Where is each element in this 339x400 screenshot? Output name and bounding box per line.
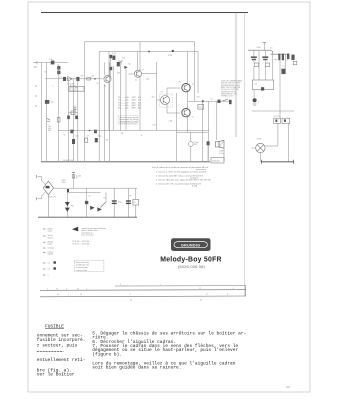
svg-text:470: 470 (153, 125, 156, 127)
bridge rectifier GR1 (43, 181, 53, 195)
svg-text:10k: 10k (91, 76, 94, 78)
svg-text:125: 125 (197, 97, 200, 99)
svg-text:5,2: 5,2 (48, 268, 51, 270)
dashed note box (118, 116, 138, 125)
arrow marker (72, 227, 78, 232)
svg-text:(5026-006 08): (5026-006 08) (178, 264, 206, 269)
resistor R16 (67, 116, 70, 120)
svg-text:cadre: cadre (48, 244, 53, 246)
svg-text:NIVEAU 50 mV: NIVEAU 50 mV (221, 95, 234, 98)
capacitor C21 variable (118, 60, 123, 66)
wire (139, 78, 141, 131)
capacitor C12 electrolytic (126, 200, 131, 201)
capacitor C6 (218, 100, 221, 103)
wire left rail (41, 63, 43, 162)
svg-text:12: 12 (199, 288, 201, 290)
svg-text:fixation: fixation (48, 236, 54, 239)
capacitor C5 (95, 138, 98, 142)
voltage table (118, 97, 129, 110)
ground (253, 104, 257, 106)
svg-text:GRUNDIG: GRUNDIG (181, 243, 200, 247)
wire (279, 54, 281, 118)
svg-text:267: 267 (286, 385, 291, 389)
svg-text:d: d (258, 102, 259, 104)
svg-text:4,4V: 4,4V (132, 102, 137, 104)
wire second left rail (46, 63, 48, 162)
resistor R7 (72, 139, 75, 144)
resistor R11 (57, 118, 60, 123)
legend item e (43, 251, 46, 253)
resistor R4 (87, 78, 91, 80)
svg-text:7: 7 (68, 294, 69, 296)
transistor T3 (161, 96, 170, 105)
wire (113, 188, 115, 217)
svg-text:a: a (48, 274, 49, 276)
svg-text:56k: 56k (117, 73, 120, 75)
svg-text:2n2: 2n2 (122, 58, 125, 60)
zener diode stack (67, 192, 69, 217)
resistor R13 (94, 130, 97, 134)
node B (172, 50, 174, 52)
svg-text:4,5V: 4,5V (132, 100, 137, 102)
wire (47, 195, 49, 218)
rule B (40, 289, 246, 292)
legend item h (43, 274, 46, 276)
wire (103, 84, 105, 161)
svg-text:8: 8 (227, 294, 228, 296)
wire (120, 65, 122, 131)
rule A (115, 285, 246, 287)
capacitor C9 (207, 141, 210, 145)
rule C (40, 295, 246, 298)
wire (77, 79, 79, 161)
legend item f (43, 262, 46, 264)
svg-text:50Hz: 50Hz (62, 182, 66, 184)
wire (125, 69, 127, 131)
svg-text:GL: GL (255, 84, 257, 86)
wire (207, 101, 209, 161)
capacitor C18b (287, 54, 289, 60)
resistor R14 (110, 55, 113, 58)
wire (67, 79, 69, 161)
resistor R1 (51, 61, 55, 65)
resistor R3 (57, 71, 60, 75)
switch S1 (222, 99, 228, 101)
wire ground bus (38, 216, 137, 218)
node G (67, 189, 69, 192)
wire (252, 147, 256, 149)
diode D3 (124, 66, 127, 69)
svg-text:24: 24 (57, 294, 59, 296)
value box (265, 63, 269, 67)
svg-text:soit bien guidée dans sa rainu: soit bien guidée dans sa rainure. (92, 365, 181, 371)
wire (38, 177, 46, 185)
legend item d (43, 247, 46, 249)
svg-text:(figure b).: (figure b). (92, 351, 122, 357)
wire (176, 93, 178, 161)
svg-text:z secteur, puis: z secteur, puis (37, 342, 78, 348)
potentiometer P1 (68, 112, 78, 114)
lamp LP1 (256, 143, 265, 152)
antenna stub (263, 43, 265, 51)
wire bus2 (177, 131, 208, 133)
node A (148, 51, 150, 53)
svg-text:8,8V: 8,8V (132, 108, 137, 110)
wire (127, 188, 129, 217)
svg-text:9,4V: 9,4V (168, 55, 173, 57)
capacitor C7 (229, 100, 232, 104)
value box (254, 63, 258, 67)
wire (202, 101, 204, 161)
svg-text:1,5k: 1,5k (49, 59, 53, 61)
speaker LS (215, 142, 219, 147)
switch S2 (100, 202, 106, 208)
svg-text:4µ7: 4µ7 (67, 83, 70, 85)
svg-text:81: 81 (200, 300, 202, 302)
svg-text:ver le boîtier: ver le boîtier (37, 372, 75, 378)
svg-text:T1 ...... 0,8: T1 ...... 0,8 (118, 97, 129, 99)
svg-text:1. mesure à 1 kHz, 50 mV appl: 1. mesure à 1 kHz, 50 mV appliqués à l'e… (156, 170, 207, 173)
ground bus right (262, 161, 294, 163)
svg-text:la construction: la construction (76, 266, 88, 269)
svg-text:5. Dégager le châssis de ses a: 5. Dégager le châssis de ses arrêtoirs s… (92, 330, 246, 336)
svg-text:100µ: 100µ (98, 136, 102, 138)
svg-text:0,1: 0,1 (270, 48, 273, 50)
wire (187, 92, 189, 101)
wire (216, 101, 218, 140)
capacitor C15 electrolytic (264, 50, 266, 56)
svg-text:T2: T2 (142, 70, 144, 72)
wire (277, 123, 279, 146)
wire (285, 54, 287, 68)
connector block K1 (274, 118, 281, 123)
capacitor C11 electrolytic (112, 200, 117, 201)
legend item c (43, 241, 46, 243)
svg-text:1k: 1k (97, 83, 99, 85)
wire (58, 64, 60, 161)
transistor T4 (182, 84, 190, 92)
diode D1 (68, 77, 73, 82)
svg-text:T2 ...... 1,4: T2 ...... 1,4 (118, 100, 129, 102)
wire (38, 192, 46, 199)
diode D5 (97, 207, 102, 211)
svg-text:et des circuits: et des circuits (76, 269, 87, 272)
wire output row (188, 100, 232, 102)
wire (112, 66, 114, 131)
wire signal row (45, 78, 103, 80)
svg-text:avant: avant (48, 230, 53, 233)
regulator branch (72, 172, 74, 188)
wire (253, 90, 255, 99)
wire (156, 62, 158, 131)
svg-text:Châssis: Châssis (48, 247, 54, 249)
tick (275, 57, 289, 60)
svg-text:B250 C75: B250 C75 (48, 197, 56, 199)
wire (157, 99, 161, 101)
label box out (198, 104, 204, 109)
svg-text:aiguille: aiguille (48, 254, 54, 256)
capacitor C20 electrolytic (45, 100, 49, 104)
svg-text:2x: 2x (283, 66, 285, 68)
svg-text:S1: S1 (104, 198, 106, 200)
svg-text:KLANG 2x: KLANG 2x (70, 89, 79, 92)
wire (187, 101, 189, 109)
svg-text:T4: T4 (192, 84, 194, 86)
capacitor C19 electrolytic (253, 98, 257, 102)
node E (89, 130, 91, 132)
svg-text:3. mesure effectuée avec sign: 3. mesure effectuée avec signal modulé 3… (156, 178, 212, 181)
svg-text:pos. de service: pos. de service (82, 235, 94, 237)
resistor R2 (57, 66, 60, 70)
wire outer box top (85, 42, 195, 161)
svg-text:AC125: AC125 (70, 84, 76, 87)
switch contacts (47, 118, 50, 121)
frame tick (245, 286, 247, 297)
node D (73, 130, 75, 132)
svg-text:3: 3 (66, 288, 67, 290)
svg-text:57: 57 (206, 294, 208, 296)
svg-text:fusible incorporé.: fusible incorporé. (37, 337, 86, 343)
wire (136, 52, 138, 70)
svg-text:modifications de: modifications de (76, 264, 89, 267)
wire (166, 88, 168, 97)
svg-text:alimentation secteur: alimentation secteur (119, 122, 137, 125)
svg-text:68: 68 (129, 64, 131, 66)
svg-text:5: 5 (86, 288, 87, 290)
wire top bus left (248, 49, 271, 51)
svg-text:T5 ...... 4,4: T5 ...... 4,4 (118, 108, 129, 110)
wire (142, 72, 158, 74)
capacitor C4 (85, 138, 88, 142)
svg-text:10µ: 10µ (76, 136, 79, 138)
divider line (252, 110, 295, 112)
legend item b (43, 235, 46, 237)
wire inner box top (99, 52, 198, 162)
transistor T5 (182, 109, 190, 117)
capacitor C1 (63, 77, 66, 81)
svg-text:8 mA: 8 mA (192, 185, 197, 188)
svg-text:9: 9 (130, 294, 131, 296)
svg-text:52: 52 (130, 300, 132, 302)
svg-text:220: 220 (146, 79, 149, 81)
wire step (271, 50, 273, 54)
capacitor C8 electrolytic (188, 142, 193, 147)
node F (202, 100, 204, 102)
capacitor C18 (282, 54, 284, 61)
svg-text:1,2V: 1,2V (132, 97, 137, 99)
svg-text:5,2: 5,2 (48, 262, 51, 264)
capacitor C14 electrolytic (253, 50, 255, 56)
label block volume (69, 87, 84, 92)
svg-text:5k: 5k (64, 135, 66, 137)
capacitor C17 (278, 54, 280, 61)
value labels (45, 58, 285, 200)
node C (94, 78, 96, 80)
svg-text:0,1: 0,1 (211, 99, 214, 101)
wire long drop (272, 54, 274, 80)
capacitor C3 (74, 106, 77, 112)
svg-text:entuellement reti-: entuellement reti- (37, 357, 86, 363)
svg-text:9V1: 9V1 (71, 206, 74, 208)
wire top bus right (271, 53, 290, 55)
terminal marks (34, 63, 38, 107)
resistor R5 (112, 56, 115, 60)
resistor R15 (110, 67, 113, 70)
resistor R17 (75, 116, 78, 120)
wire (288, 123, 290, 161)
rule marks (47, 284, 234, 302)
separator (41, 161, 210, 163)
wire (135, 188, 137, 199)
bus lower (58, 130, 209, 132)
wire (189, 132, 191, 141)
resistor R8 (72, 175, 75, 178)
wire (187, 117, 189, 133)
svg-text:10µ: 10µ (51, 102, 54, 104)
svg-text:22k: 22k (81, 76, 84, 78)
svg-text:1n: 1n (141, 135, 143, 137)
legend item a (43, 228, 46, 230)
svg-text:4 Ohm: 4 Ohm (219, 153, 225, 155)
svg-text:1W: 1W (199, 107, 202, 109)
tiny text cluster (48, 125, 52, 132)
svg-text:Melody-Boy 50FR: Melody-Boy 50FR (160, 257, 222, 264)
svg-text:12: 12 (56, 288, 58, 290)
wire (109, 63, 111, 162)
svg-text:5026-006: 5026-006 (212, 160, 220, 162)
wire input (37, 62, 68, 64)
wire (264, 67, 266, 80)
svg-text:470µ: 470µ (256, 47, 260, 49)
resistor R6 (117, 62, 120, 66)
svg-text:0,1: 0,1 (60, 77, 63, 79)
value box (133, 199, 139, 205)
wire dc bus (54, 187, 137, 189)
label box sep (211, 158, 224, 164)
wire (86, 188, 88, 217)
svg-text:6: 6 (120, 284, 121, 286)
wire (253, 67, 255, 80)
wire (259, 152, 261, 161)
wire (72, 79, 74, 161)
rectifier box GL1 (258, 51, 260, 80)
wire (108, 52, 110, 77)
svg-text:4,7k: 4,7k (112, 53, 116, 55)
wire (68, 191, 100, 193)
svg-text:33k: 33k (121, 133, 124, 135)
svg-text:T5: T5 (192, 117, 194, 119)
wire right outer frame (244, 13, 246, 297)
svg-text:GL 123: GL 123 (274, 116, 280, 118)
wire (166, 104, 168, 114)
GRUNDIG badge (171, 238, 211, 251)
svg-text:1k5: 1k5 (152, 97, 155, 99)
wire (187, 52, 189, 85)
svg-text:72 35 57 — 9272 064: 72 35 57 — 9272 064 (72, 244, 89, 246)
svg-text:100µ: 100µ (118, 202, 122, 204)
capacitor C16 (281, 69, 285, 74)
transistor T1 (104, 75, 111, 82)
svg-text:4: 4 (233, 288, 234, 290)
wire (108, 83, 110, 131)
svg-text:T3 ...... 2,1: T3 ...... 2,1 (118, 102, 129, 104)
capacitor C2 (76, 77, 79, 81)
top frame line (41, 12, 248, 14)
dashed info box (74, 260, 104, 271)
svg-text:T3: T3 (161, 92, 163, 94)
wire (139, 42, 141, 71)
legend item g (43, 268, 46, 270)
value box (293, 61, 297, 65)
wire right inner frame (235, 13, 237, 138)
notes right (221, 80, 243, 98)
wire (110, 58, 112, 67)
svg-text:46: 46 (77, 288, 79, 290)
svg-text:47n: 47n (87, 136, 90, 138)
svg-text:L: L (53, 86, 54, 88)
resistor R12 (70, 130, 73, 134)
svg-text:31: 31 (80, 294, 82, 296)
T3 outline box (160, 94, 172, 107)
svg-text:8k2: 8k2 (106, 140, 109, 142)
transistor T2 (134, 70, 141, 77)
capacitor C23 (291, 55, 294, 60)
diode D4 (46, 186, 50, 188)
diode D2 (90, 206, 95, 210)
capacitor C10 electrolytic (85, 201, 88, 204)
svg-text:x: x (160, 284, 161, 286)
wire (103, 63, 105, 76)
